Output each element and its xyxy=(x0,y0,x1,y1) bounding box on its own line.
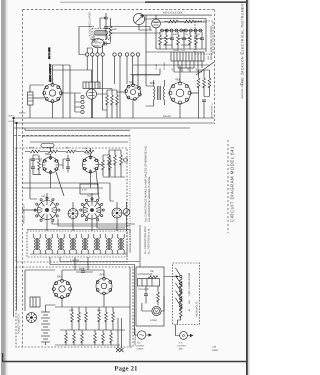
wire drop E3 xyxy=(97,56,99,82)
wire c7 down xyxy=(203,102,205,118)
wire second rail xyxy=(152,18,206,20)
wire battery bottom xyxy=(45,342,47,345)
resistor R38 xyxy=(81,333,84,343)
contact P9 xyxy=(199,29,202,32)
wire band top rail xyxy=(133,64,209,66)
contact cross 2 xyxy=(120,348,124,352)
tube V1 pin 3 xyxy=(59,92,62,95)
tube V6 elements xyxy=(154,15,159,25)
node comb 1 xyxy=(165,30,166,31)
svg-text:400 CYCLE OSC.: 400 CYCLE OSC. xyxy=(163,12,184,15)
meter M1 needle arrow xyxy=(136,16,144,23)
resistor R7 xyxy=(189,35,192,45)
svg-text:OUTPUT: OUTPUT xyxy=(136,344,146,347)
meter box outline xyxy=(136,267,164,326)
box hatch lines xyxy=(86,82,98,89)
coil T8 xyxy=(94,238,100,250)
power switch S5 rotor xyxy=(27,313,37,323)
wire r45 xyxy=(157,286,159,305)
wire transformer collector 1 xyxy=(174,71,202,73)
tube V8 pin ring 6 xyxy=(83,159,86,162)
wire coil feed rail xyxy=(27,229,130,231)
wire r11-13 bottom xyxy=(107,103,117,118)
tube V5 pin 2 xyxy=(185,85,188,88)
wire right rail box b xyxy=(129,267,131,347)
wire comb crosslink 2 xyxy=(163,44,190,46)
wire r row2 bottoms xyxy=(55,341,120,345)
wire top rail xyxy=(140,14,212,16)
resistor R13 xyxy=(116,95,119,105)
tube V10 pin 6 xyxy=(96,281,99,284)
wire comb crosslink 1 xyxy=(160,38,202,40)
terminal E3 xyxy=(96,53,99,56)
attenuator arm 5 xyxy=(176,298,181,305)
switch S1 outer dot 10 xyxy=(36,203,38,205)
wire drop E2 xyxy=(91,56,93,118)
svg-text:R.F.: R.F. xyxy=(137,342,141,345)
battery BT1 short plate 1 xyxy=(43,314,48,316)
switch S1 rotor xyxy=(38,201,57,220)
svg-text:6C6: 6C6 xyxy=(90,38,95,41)
page background xyxy=(0,0,250,375)
wire drop E1 xyxy=(86,56,88,70)
battery BT1 short plate 4 xyxy=(43,332,48,334)
wire comb bottoms xyxy=(160,40,202,50)
wire s1 drop xyxy=(47,193,117,231)
left cluster wires xyxy=(33,155,41,175)
wire diag v8 s2 xyxy=(96,171,99,199)
attenuator arm 1 xyxy=(176,268,181,275)
grid cap C3 xyxy=(105,42,107,46)
svg-text:OUTPUT: OUTPUT xyxy=(178,344,188,347)
transformer T1 winding hatch xyxy=(174,52,201,61)
tube V9 envelope xyxy=(53,280,71,298)
tube V4 pin d xyxy=(134,98,137,101)
tube V8 spokes xyxy=(83,157,99,173)
coil bank dashed box xyxy=(27,231,127,257)
wire mod to osc 1 xyxy=(104,27,150,31)
terminal E2 xyxy=(91,53,94,56)
shield dash-dot horizontal xyxy=(14,135,130,137)
node comb 2 xyxy=(183,30,184,31)
meter M2 inner xyxy=(154,308,160,314)
tube V9 pin 2 xyxy=(66,282,69,285)
wire diag v7 s1 xyxy=(56,172,64,196)
switch S1 outer dot 6 xyxy=(52,219,54,221)
attenuator contact 4 xyxy=(180,298,182,300)
tube V4 envelope xyxy=(126,85,141,100)
svg-text:THE JACKSON ELECTRICAL INSTRUM: THE JACKSON ELECTRICAL INSTRUMENT CO. xyxy=(240,0,245,86)
terminal E7 xyxy=(125,53,128,56)
switch S2 spokes xyxy=(83,201,101,219)
wire r2 r3 link xyxy=(164,21,202,23)
wire v1 top xyxy=(53,65,71,84)
tube V8 pin ring 2 xyxy=(95,159,98,162)
tube V8 pin ring 4 xyxy=(89,171,92,174)
switch S1 outer dot 2 xyxy=(52,199,54,201)
svg-text:465KC: 465KC xyxy=(19,112,26,115)
battery BT1 short plate 3 xyxy=(43,326,48,328)
wire comb tops xyxy=(160,32,202,38)
tube V10 pin 2 xyxy=(109,281,112,284)
terminal E9 xyxy=(136,53,139,56)
tube V7 envelope xyxy=(43,157,59,173)
wire drop E7 xyxy=(126,56,128,84)
svg-text:ALL RESISTORS ½ W.: ALL RESISTORS ½ W. xyxy=(148,228,151,254)
svg-text:4000: 4000 xyxy=(47,147,53,150)
tube V4 pin f xyxy=(125,90,128,93)
svg-text:ANT: ANT xyxy=(87,195,92,198)
tube V9 pin 5 xyxy=(61,296,64,299)
tube V5 envelope xyxy=(170,83,191,104)
svg-text:400 ~: 400 ~ xyxy=(179,347,185,350)
wire r row links xyxy=(25,151,84,153)
output jack J11 xyxy=(180,332,188,340)
switch S2 outer dot 9 xyxy=(80,209,82,211)
attenuator resistor 5 xyxy=(179,308,182,318)
wire speaker leads xyxy=(118,318,122,348)
svg-text:OSC: OSC xyxy=(41,195,46,198)
svg-text:CAL 6000: CAL 6000 xyxy=(139,288,150,291)
wire bank out right xyxy=(50,254,140,326)
switch S2 outer dot 4 xyxy=(102,209,104,211)
switch S2 outer dot 5 xyxy=(101,215,103,217)
coil bank bottoms xyxy=(30,250,126,254)
attenuator resistor 1 xyxy=(179,278,182,288)
tube V9 pin 1 xyxy=(61,279,64,282)
wire mid horiz xyxy=(130,69,160,75)
switch S2 outer dot 2 xyxy=(97,199,99,201)
attenuator resistor 2 xyxy=(179,285,182,295)
dashed shield top right xyxy=(195,21,213,54)
tube V5 pin 6 xyxy=(172,98,175,101)
switch S2 outer dot 8 xyxy=(81,215,83,217)
switch S1 outer dot 9 xyxy=(34,209,36,211)
page left scan edge xyxy=(1,0,6,375)
wire j10 feed xyxy=(135,326,138,335)
wire switch bottom nest 2 xyxy=(58,219,130,226)
svg-text:0-1MA: 0-1MA xyxy=(150,319,157,322)
wire c15 xyxy=(76,271,93,273)
svg-text:VARIABLE R.F. OSC.: VARIABLE R.F. OSC. xyxy=(129,228,132,253)
tube V4 pin b xyxy=(138,87,141,90)
output jack J11 arrow xyxy=(187,334,192,336)
left cluster resistor R25 xyxy=(38,160,41,170)
switch S1 hub xyxy=(45,208,48,211)
contact P7 xyxy=(189,29,192,32)
tube V9 inner xyxy=(59,286,65,292)
tube V7 pin ring 6 xyxy=(43,160,46,163)
tube V10 inner xyxy=(101,283,107,289)
coil L1 pill body xyxy=(94,31,108,36)
tube V1 envelope xyxy=(44,84,62,102)
svg-text:50,000 2000 .1: 50,000 2000 .1 xyxy=(211,103,214,118)
contact P2 xyxy=(165,29,168,32)
power switch S5 hub xyxy=(30,316,32,318)
wire top rail box b xyxy=(25,270,104,311)
tube V1 pin 5 xyxy=(51,100,54,103)
resistor R22 xyxy=(66,150,76,153)
svg-text:ALL RESISTANCE MARKED IN OHMS.: ALL RESISTANCE MARKED IN OHMS. xyxy=(148,176,151,222)
svg-text:10,000: 10,000 xyxy=(155,63,158,70)
svg-text:6C5: 6C5 xyxy=(150,81,156,85)
svg-text:5000: 5000 xyxy=(112,28,118,31)
switch S1 outer dot 4 xyxy=(58,209,60,211)
capacitor C4 xyxy=(170,38,174,40)
tube V1 pin 2 xyxy=(57,86,60,89)
schematic outer dashed frame top edge xyxy=(23,9,215,11)
battery BT1 long plate 3 xyxy=(41,323,50,325)
tube V7 spokes xyxy=(43,157,59,173)
wire filament return xyxy=(22,135,130,137)
svg-text:AUDIO MODULATOR: AUDIO MODULATOR xyxy=(89,12,92,37)
tube V3 envelope xyxy=(87,89,97,99)
wire battery top xyxy=(46,305,56,312)
tube V7 pin ring 2 xyxy=(55,160,58,163)
attenuator contact 5 xyxy=(180,305,182,307)
tube V7 pin ring 5 xyxy=(43,168,46,171)
switch S2 outer dot 10 xyxy=(81,203,83,205)
wire v4 down xyxy=(132,100,134,119)
terminal E8 xyxy=(131,53,134,56)
wire feed line from rf osc xyxy=(139,225,141,267)
attenuator dashed box xyxy=(173,263,200,325)
contact cross 1 xyxy=(116,348,120,352)
coil T5 xyxy=(58,238,64,250)
wire coil drops into box xyxy=(75,257,88,270)
tube V1 pin 7 xyxy=(43,92,46,95)
attenuator arm 2 xyxy=(176,276,181,283)
terminal F1 xyxy=(81,95,84,98)
capacitor C20 xyxy=(144,294,148,296)
wire drop E8 xyxy=(132,56,134,84)
wire r24 xyxy=(103,155,110,176)
bus wire heater xyxy=(14,127,190,129)
wire horiz under tubes xyxy=(22,183,110,188)
wire lower rail xyxy=(25,128,130,130)
svg-text:CIRCUIT DIAGRAM MODEL 641: CIRCUIT DIAGRAM MODEL 641 xyxy=(230,146,235,222)
wire t2 legs xyxy=(146,80,165,106)
page top edge line xyxy=(60,1,247,3)
resistor R5 xyxy=(165,35,168,45)
power switch S5 spokes xyxy=(27,313,37,323)
battery BT1 long plate 5 xyxy=(41,335,50,337)
switch S3 rotor xyxy=(112,208,122,218)
wire inter coupling xyxy=(103,43,111,44)
wire r cluster bottoms xyxy=(60,320,125,330)
wire bank out drop 1 xyxy=(50,257,60,265)
contact P6 xyxy=(185,29,188,32)
wire j11 feed xyxy=(175,325,179,336)
wire v3 down xyxy=(91,99,93,118)
terminal E4 xyxy=(101,53,104,56)
transformer T2 core xyxy=(158,86,161,100)
wire v1 left xyxy=(33,97,44,99)
switch S2 outer dot 11 xyxy=(85,199,87,201)
wire avc xyxy=(30,141,128,143)
switch S2 outer dot 3 xyxy=(101,203,103,205)
svg-text:Page 21: Page 21 xyxy=(114,366,137,373)
output jack J10 sine xyxy=(140,334,144,336)
wire meter legs xyxy=(142,296,164,311)
page right edge line xyxy=(246,0,248,375)
box mod transformer xyxy=(83,82,100,89)
tube V4 pin g xyxy=(127,85,130,88)
wire r cluster tops xyxy=(72,307,113,312)
wire riser left 2 xyxy=(69,65,71,118)
left riser wire 2 xyxy=(16,123,18,310)
tube V10 pin 3 xyxy=(109,289,112,292)
switch S3 spokes xyxy=(112,208,122,218)
trimmer hub xyxy=(72,213,74,215)
tube V3 elements xyxy=(89,93,95,96)
svg-text:465 KC: 465 KC xyxy=(163,115,171,118)
svg-text:THOR. T-13: THOR. T-13 xyxy=(173,49,186,52)
page bottom-left corner edge xyxy=(2,353,4,362)
resistor R23 xyxy=(102,160,105,170)
meter M2 circle xyxy=(152,306,161,315)
resistor R33 xyxy=(98,312,101,322)
switch S2 hub xyxy=(91,209,94,212)
resistor R37 xyxy=(73,333,76,343)
wire mid riser xyxy=(146,52,154,86)
resistor R3 xyxy=(184,20,194,23)
right cluster trimmer circle xyxy=(124,158,128,162)
transformer T2 right coil xyxy=(163,86,164,100)
terminal E1 xyxy=(86,53,89,56)
svg-text:M: M xyxy=(155,310,158,314)
wire tube v7 drop xyxy=(50,148,52,188)
node J1 xyxy=(13,117,15,119)
wire chain bottom xyxy=(178,316,181,324)
resistor R36 xyxy=(65,333,68,343)
coil T7 xyxy=(82,238,88,250)
tube V4 pin e xyxy=(127,96,130,99)
battery BT1 long plate 4 xyxy=(41,329,50,331)
tube V1 pin 4 xyxy=(57,97,60,100)
battery BT1 long plate 1 xyxy=(41,311,50,313)
coil T10 xyxy=(118,238,124,250)
switch S3 hub xyxy=(116,212,118,214)
terminal E5 xyxy=(113,53,116,56)
coil bank feeders xyxy=(34,234,124,238)
coil T4 xyxy=(46,238,52,250)
wire r23 xyxy=(99,155,103,176)
battery BT1 short plate 5 xyxy=(43,338,48,340)
tube V2 grid zigzag xyxy=(93,42,102,44)
regulator block xyxy=(138,279,160,287)
resistor R40 xyxy=(102,333,105,343)
capacitor C1 xyxy=(104,17,108,19)
shield rect lower xyxy=(80,184,98,194)
tube V5 pin 3 xyxy=(188,91,191,94)
resistor R21 xyxy=(48,150,58,153)
svg-text:4 TC: 4 TC xyxy=(82,189,87,192)
wire terminals left xyxy=(62,93,81,112)
svg-text:EXT.M.: EXT.M. xyxy=(9,120,16,123)
resistor R8 xyxy=(195,35,198,45)
tube V10 pin 4 xyxy=(103,292,106,295)
wire c2 down xyxy=(105,29,107,40)
coil T9 xyxy=(106,238,112,250)
contact P8 xyxy=(194,29,197,32)
right cluster resistor R28 xyxy=(120,155,123,165)
tube V1 inner xyxy=(49,90,55,96)
resistor R32 xyxy=(85,312,88,322)
resistor block R10 xyxy=(28,92,34,105)
wire diagonal tap xyxy=(196,62,214,75)
wire into attenuator xyxy=(164,276,178,278)
svg-text:DAYTON, OHIO: DAYTON, OHIO xyxy=(241,81,244,98)
battery BT1 short plate 2 xyxy=(43,320,48,322)
wire r row2 tops xyxy=(66,330,111,333)
wire mod to osc 2 xyxy=(111,32,161,33)
tube V7 pin ring 1 xyxy=(49,156,52,159)
svg-text:6X5: 6X5 xyxy=(57,275,62,279)
tube V6 envelope xyxy=(152,19,161,28)
wire v5 down xyxy=(179,104,181,119)
svg-text:250: 250 xyxy=(65,147,70,150)
wire c10 c11 xyxy=(59,155,68,173)
output jack J11 inner xyxy=(183,335,185,337)
switch S2 outer dot 6 xyxy=(97,219,99,221)
tube V7 pin ring 3 xyxy=(55,168,58,171)
switch S2 outer dot 1 xyxy=(91,198,93,200)
svg-text:110 V. LINE: 110 V. LINE xyxy=(48,47,51,59)
wire tube to terminal xyxy=(87,44,102,53)
left riser wire 1 xyxy=(13,118,15,317)
left cluster capacitor C13 xyxy=(31,167,35,169)
switch S1 outer dot 7 xyxy=(40,219,42,221)
wire mid rail xyxy=(55,295,130,307)
wire r1 xyxy=(110,18,112,42)
schematic outer dashed frame left edge xyxy=(22,10,24,348)
tube V2 cathode xyxy=(94,45,100,47)
wire c20 xyxy=(145,286,147,304)
svg-text:BAND AND TONE CONTROL: BAND AND TONE CONTROL xyxy=(210,25,213,60)
transformer T1 box xyxy=(171,52,204,61)
attenuator resistor 4 xyxy=(179,300,182,310)
attenuator resistor 3 xyxy=(179,293,182,303)
contact P5 xyxy=(180,29,183,32)
resistor R45 xyxy=(157,292,160,302)
switch S4 small xyxy=(123,209,130,216)
switch S1 spokes xyxy=(38,201,57,220)
trimmer spokes xyxy=(68,209,78,219)
wire drop E4 xyxy=(103,56,107,110)
bus wire B- xyxy=(14,122,214,124)
tube V9 pin 4 xyxy=(66,293,69,296)
socket contact row line xyxy=(160,30,203,32)
resistor R34 xyxy=(105,312,108,322)
resistor R11 xyxy=(106,95,109,105)
output jack J10 arrow xyxy=(146,334,151,336)
wire lower rail xyxy=(156,48,206,50)
wire transformer down xyxy=(174,61,202,72)
contact P3 xyxy=(170,29,173,32)
switch S1 outer dot 8 xyxy=(36,215,38,217)
capacitor C10 xyxy=(66,159,70,161)
tube V8 pin ring 5 xyxy=(83,167,86,170)
fuse block hatch xyxy=(33,297,36,307)
terminal F3 xyxy=(81,105,84,108)
svg-text:CABLE: CABLE xyxy=(137,347,145,350)
wire v5 top xyxy=(179,65,181,83)
attenuator contact 2 xyxy=(180,283,182,285)
rf shield dashed box xyxy=(16,148,127,262)
tube V1 pin 1 xyxy=(51,83,54,86)
wire box top xyxy=(53,70,92,82)
